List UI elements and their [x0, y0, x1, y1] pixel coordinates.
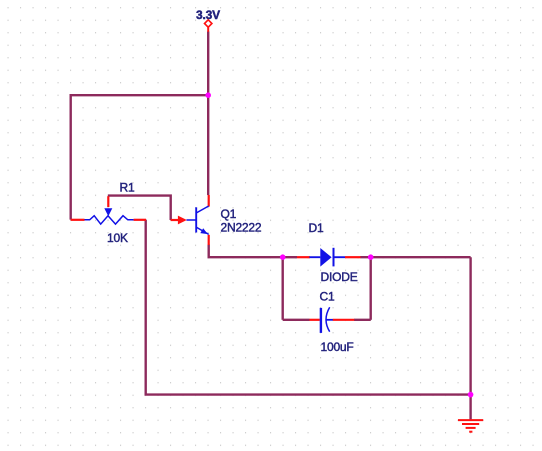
power symbol 3.3V	[205, 20, 212, 32]
junction dot at 3.3V rail / feedback	[205, 92, 211, 98]
svg-text:R1: R1	[120, 181, 135, 195]
wire: left vertical down to R1 left pin	[69, 94, 71, 220]
wire: right vertical down to ground	[469, 257, 471, 419]
wire: C1 right stub to right side of loop	[354, 319, 371, 321]
junction node A (D1/C1 left)	[280, 254, 286, 260]
wire: 3.3V rail down to Q1 collector	[207, 32, 209, 196]
svg-text:100uF: 100uF	[321, 340, 354, 354]
capacitor C1	[310, 307, 355, 333]
wire: node A to D1 anode stub	[283, 256, 297, 258]
wire: node B down right side of C1 loop	[370, 256, 372, 320]
wire: Q1 emitter down and right to node A	[209, 245, 283, 258]
junction dot at bottom rail / ground	[468, 392, 474, 398]
svg-text:D1: D1	[309, 221, 324, 235]
junction node B (D1/C1 right)	[368, 254, 374, 260]
transistor Q1	[171, 195, 209, 245]
wire: bottom horizontal rail	[145, 393, 471, 395]
svg-text:C1: C1	[320, 290, 335, 304]
wire: node A down left side of C1 loop	[282, 256, 284, 320]
wire: top horizontal feedback	[71, 94, 209, 96]
svg-text:2N2222: 2N2222	[221, 221, 262, 235]
wire: R1 wiper up and over to Q1 base	[108, 196, 171, 220]
resistor R1 (potentiometer)	[71, 196, 146, 224]
svg-text:10K: 10K	[107, 231, 128, 245]
wire: D1 cathode stub to right corner	[360, 256, 470, 258]
ground	[458, 420, 483, 432]
wire: to C1 left stub	[283, 319, 310, 321]
diode D1	[297, 248, 361, 267]
svg-text:3.3V: 3.3V	[196, 8, 220, 22]
svg-text:DIODE: DIODE	[321, 270, 358, 284]
wire: R1 right pin down to bottom rail	[144, 220, 146, 395]
svg-text:Q1: Q1	[221, 207, 237, 221]
